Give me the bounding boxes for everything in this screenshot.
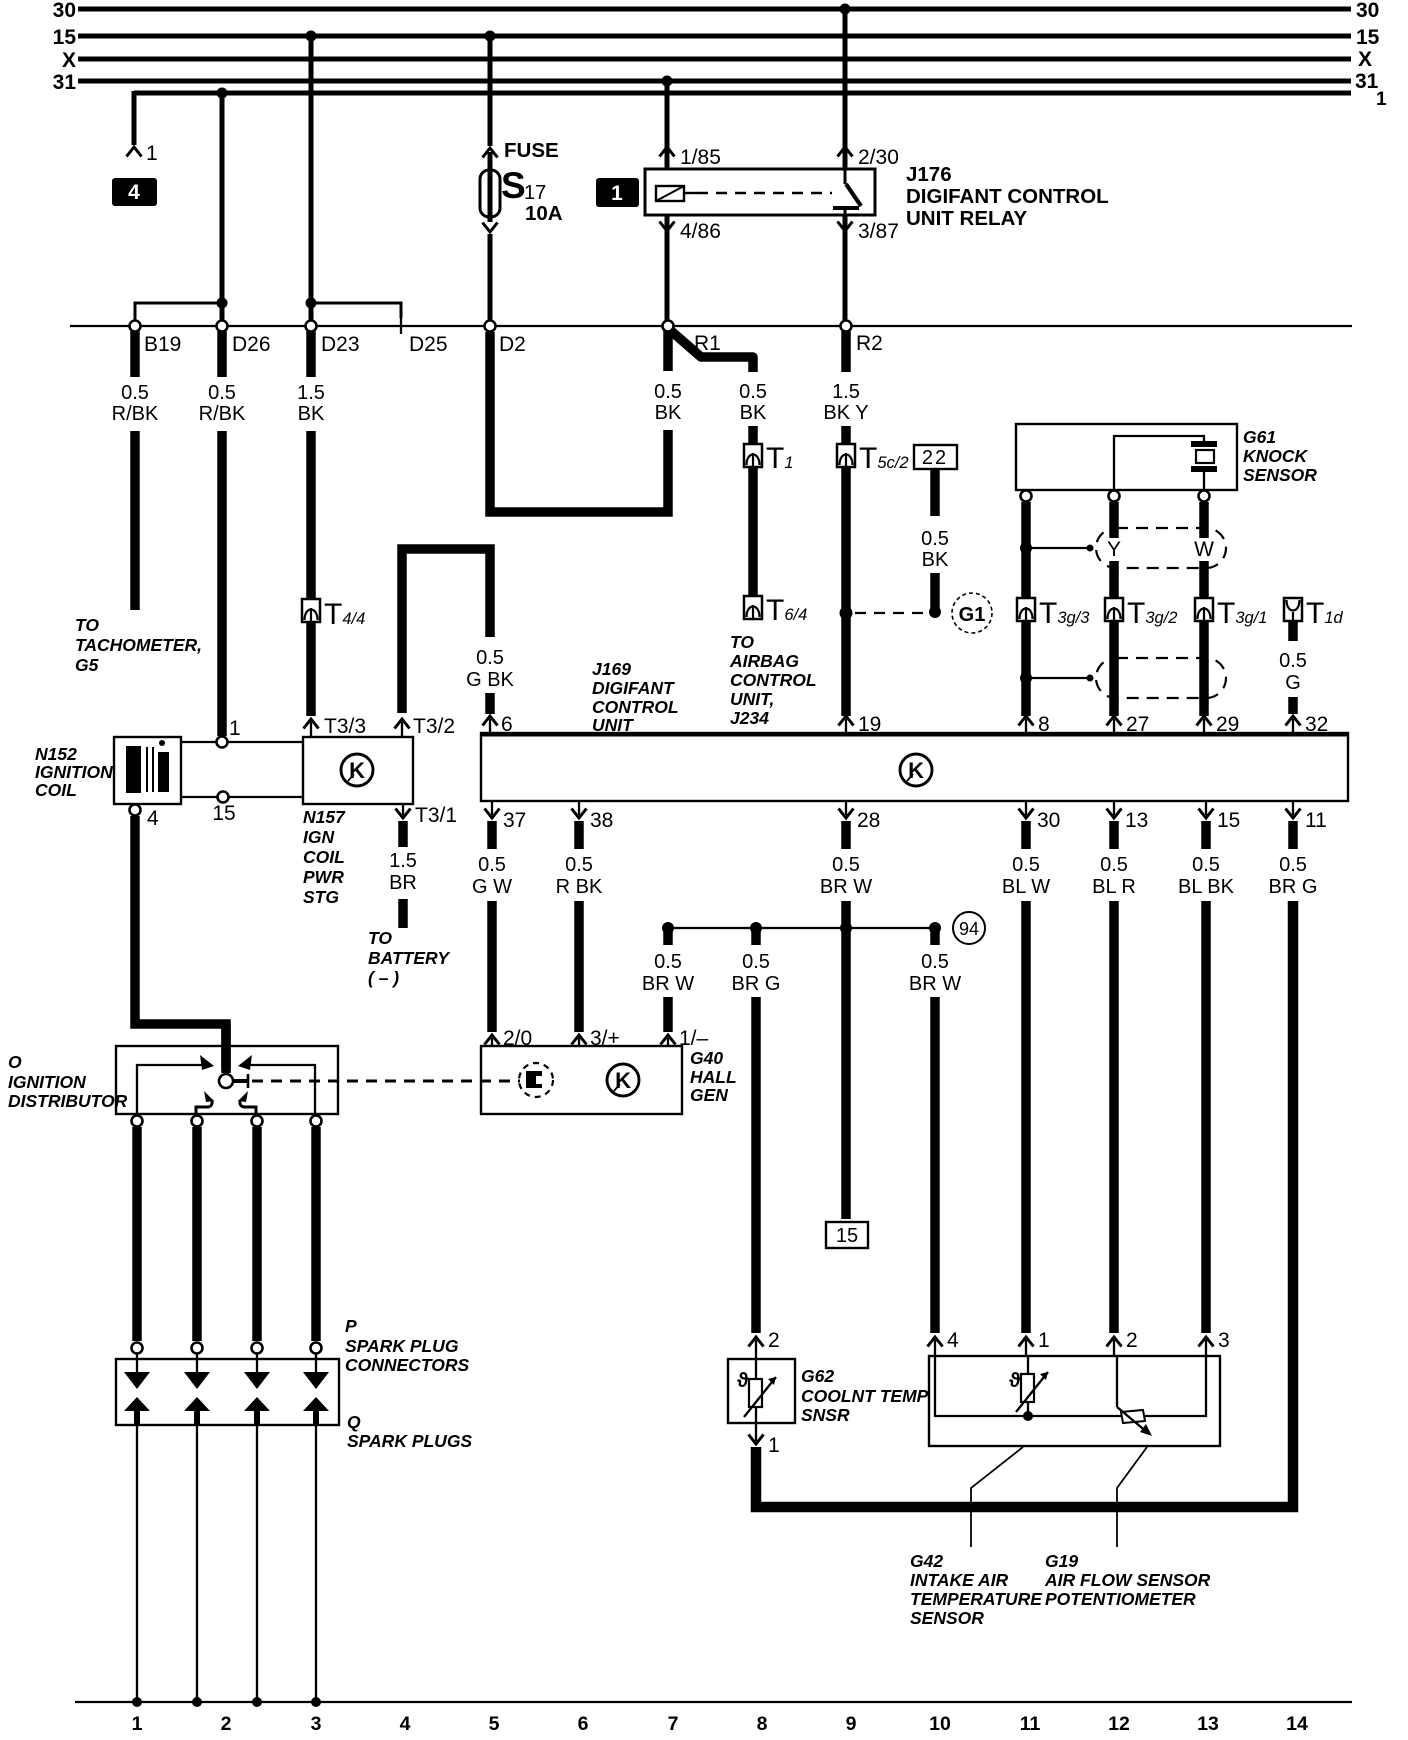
svg-text:BL W: BL W bbox=[1002, 876, 1050, 898]
svg-text:G61: G61 bbox=[1243, 427, 1276, 447]
svg-text:TO: TO bbox=[368, 928, 392, 948]
wire junction to hall 1/- bbox=[661, 931, 709, 1050]
wire R2 stub bbox=[841, 331, 851, 372]
svg-text:SPARK PLUG: SPARK PLUG bbox=[345, 1336, 459, 1356]
value 1.5 BK/Y (R2) bbox=[823, 381, 868, 424]
value 1.5 BK (D23) bbox=[297, 382, 325, 425]
ignition coil N152 box bbox=[114, 737, 181, 804]
svg-text:BR W: BR W bbox=[909, 973, 961, 995]
G62 pin 1 arrow bbox=[749, 1423, 780, 1457]
wire: feeder D26 from bus 1 bbox=[217, 88, 228, 304]
svg-text:BK: BK bbox=[655, 402, 682, 424]
svg-text:30: 30 bbox=[1356, 0, 1379, 22]
J169 pin 37 wire to hall 2/0 bbox=[485, 801, 533, 1050]
wire coil pin4 to distributor bbox=[135, 816, 226, 1070]
svg-text:D25: D25 bbox=[409, 333, 448, 356]
svg-text:15: 15 bbox=[212, 802, 235, 825]
svg-text:29: 29 bbox=[1216, 713, 1239, 736]
value 0.5 R/BK (B19) bbox=[112, 382, 159, 425]
svg-text:31: 31 bbox=[53, 71, 77, 94]
svg-text:1: 1 bbox=[611, 182, 623, 205]
svg-text:4/86: 4/86 bbox=[680, 220, 721, 243]
svg-text:TACHOMETER,: TACHOMETER, bbox=[75, 635, 202, 655]
svg-text:BL BK: BL BK bbox=[1178, 876, 1235, 898]
svg-text:BK: BK bbox=[922, 549, 949, 571]
value 0.5 BR/G (G62) bbox=[732, 951, 781, 995]
svg-text:30: 30 bbox=[53, 0, 76, 22]
svg-text:3/87: 3/87 bbox=[858, 220, 899, 243]
label G61 KNOCK SENSOR bbox=[1243, 427, 1317, 485]
label box 4 (black) bbox=[112, 178, 157, 206]
shielded pair oval Y/W bbox=[1096, 528, 1226, 568]
svg-text:R/BK: R/BK bbox=[112, 403, 159, 425]
svg-text:12: 12 bbox=[1108, 1713, 1130, 1735]
label box 1 (black) bbox=[596, 178, 639, 207]
svg-text:1: 1 bbox=[229, 717, 241, 740]
svg-text:0.5: 0.5 bbox=[121, 382, 149, 404]
wire T3/1 to battery bbox=[396, 804, 458, 928]
bus 30 bbox=[53, 0, 1380, 22]
pin label T3/3 bbox=[324, 715, 366, 738]
svg-text:0.5: 0.5 bbox=[476, 647, 504, 669]
bus X bbox=[62, 48, 1372, 72]
svg-text:38: 38 bbox=[590, 809, 613, 832]
wire: terminal 1 stub top-left bbox=[127, 91, 158, 165]
svg-text:BK: BK bbox=[298, 403, 325, 425]
svg-text:0.5: 0.5 bbox=[921, 951, 949, 973]
svg-text:J176: J176 bbox=[906, 163, 952, 186]
svg-text:SENSOR: SENSOR bbox=[910, 1608, 984, 1628]
intake air temp sensor G42 element bbox=[1009, 1356, 1048, 1421]
svg-text:4: 4 bbox=[147, 807, 159, 830]
wire B19 to tachometer bbox=[130, 331, 140, 610]
connector T4/4 bbox=[302, 598, 365, 631]
value 0.5 BK (22 wire) bbox=[921, 528, 949, 571]
coil pin 4 bbox=[130, 805, 160, 831]
svg-text:SENSOR: SENSOR bbox=[1243, 465, 1317, 485]
svg-text:0.5: 0.5 bbox=[1279, 854, 1307, 876]
svg-text:BR G: BR G bbox=[1269, 876, 1318, 898]
svg-text:0.5: 0.5 bbox=[1279, 650, 1307, 672]
value 0.5 BL/BK bbox=[1178, 854, 1235, 898]
connector T5c/2 bbox=[837, 426, 909, 475]
svg-text:( – ): ( – ) bbox=[368, 968, 399, 988]
value 0.5 BK (R1 left) bbox=[654, 381, 682, 424]
svg-text:SPARK PLUGS: SPARK PLUGS bbox=[347, 1431, 472, 1451]
spark plug wire 4 bbox=[311, 1127, 321, 1341]
svg-text:G62: G62 bbox=[801, 1366, 834, 1386]
leader to G19 label bbox=[1117, 1447, 1147, 1547]
svg-text:14: 14 bbox=[1286, 1713, 1308, 1735]
svg-text:STG: STG bbox=[303, 887, 339, 907]
relay switch contact bbox=[833, 169, 861, 215]
svg-text:0.5: 0.5 bbox=[739, 381, 767, 403]
svg-text:TEMPERATURE: TEMPERATURE bbox=[910, 1589, 1043, 1609]
svg-text:1.5: 1.5 bbox=[832, 381, 860, 403]
coil pin 1 line bbox=[181, 717, 303, 748]
svg-text:BR G: BR G bbox=[732, 973, 781, 995]
value 0.5 R/BK (D26) bbox=[199, 382, 246, 425]
relay pin 3/87 wire bbox=[838, 215, 899, 321]
svg-text:G W: G W bbox=[472, 876, 512, 898]
svg-text:ϑ: ϑ bbox=[1009, 1370, 1021, 1392]
label J176 DIGIFANT CONTROL UNIT RELAY bbox=[906, 163, 1109, 230]
connector T3g/1 bbox=[1195, 597, 1267, 630]
svg-text:INTAKE AIR: INTAKE AIR bbox=[910, 1570, 1009, 1590]
wire T3g/3 to J169 pin 8 bbox=[1019, 621, 1094, 736]
terminal R2 bbox=[841, 321, 883, 356]
label TO TACHOMETER G5 bbox=[75, 615, 202, 675]
value 0.5 R/BK (38) bbox=[556, 854, 603, 898]
terminal R1 bbox=[663, 321, 721, 356]
svg-text:4: 4 bbox=[128, 181, 140, 204]
svg-text:ϑ: ϑ bbox=[737, 1370, 749, 1392]
leader to G42 label bbox=[971, 1447, 1023, 1547]
wire junction to airflow pin 4 bbox=[928, 931, 960, 1356]
label box 22 bbox=[914, 445, 957, 469]
value 1.5 BR bbox=[389, 850, 417, 894]
terminal B19 bbox=[130, 321, 182, 357]
control unit J169 box bbox=[481, 733, 1348, 801]
value 0.5 G/W bbox=[472, 854, 512, 898]
coolant temp sensor G62 box bbox=[728, 1359, 795, 1423]
svg-text:HALL: HALL bbox=[690, 1067, 737, 1087]
svg-text:CONTROL: CONTROL bbox=[730, 670, 817, 690]
value 0.5 BR/W (hall) bbox=[642, 951, 694, 995]
J169 pin 13 wire to airflow 2 bbox=[1107, 801, 1149, 1356]
value 0.5 BR/W (28) bbox=[820, 854, 872, 898]
svg-text:27: 27 bbox=[1126, 713, 1149, 736]
svg-text:W: W bbox=[1194, 538, 1214, 561]
svg-text:1/–: 1/– bbox=[679, 1027, 709, 1050]
bottom grid rail bbox=[75, 1701, 1352, 1703]
svg-text:0.5: 0.5 bbox=[1100, 854, 1128, 876]
wire T1d to J169 pin 32 bbox=[1286, 621, 1329, 736]
svg-text:CONTROL: CONTROL bbox=[592, 697, 679, 717]
power stage N157 box bbox=[303, 737, 413, 804]
svg-text:1: 1 bbox=[768, 1434, 780, 1457]
svg-text:28: 28 bbox=[857, 809, 880, 832]
node G1 bbox=[952, 593, 992, 633]
svg-text:4: 4 bbox=[400, 1713, 411, 1735]
J169 pin 28 wire to box 15 bbox=[839, 801, 881, 1219]
J169 pin 11 wire to G62 pin 1 bbox=[756, 801, 1327, 1507]
svg-text:G1: G1 bbox=[959, 604, 986, 626]
junction G1 dashed link bbox=[840, 607, 929, 620]
svg-text:0.5: 0.5 bbox=[921, 528, 949, 550]
wire T3/2 U-loop to J169 pin 6 bbox=[395, 549, 491, 738]
svg-text:J169: J169 bbox=[592, 659, 631, 679]
svg-text:3: 3 bbox=[311, 1713, 322, 1735]
spark plug lead 3 bbox=[252, 1425, 262, 1707]
relay pin 4/86 wire bbox=[660, 215, 721, 321]
wire knock 2 to T3g/2 bbox=[1109, 502, 1119, 600]
svg-text:1.5: 1.5 bbox=[389, 850, 417, 872]
svg-text:10: 10 bbox=[929, 1713, 951, 1735]
svg-text:AIRBAG: AIRBAG bbox=[729, 651, 799, 671]
hall generator G40 box bbox=[481, 1046, 682, 1114]
svg-text:COOLNT TEMP: COOLNT TEMP bbox=[801, 1386, 929, 1406]
bus 15 bbox=[53, 26, 1380, 49]
svg-text:N152: N152 bbox=[35, 744, 77, 764]
wire junction to G62 pin 2 bbox=[749, 931, 780, 1359]
label G62 COOLNT TEMP SNSR bbox=[801, 1366, 929, 1425]
svg-text:SNSR: SNSR bbox=[801, 1405, 850, 1425]
label Q SPARK PLUGS bbox=[347, 1412, 472, 1451]
grid numbers 1-14 bbox=[132, 1713, 1308, 1735]
node 94 bbox=[953, 912, 985, 944]
svg-text:BK: BK bbox=[740, 402, 767, 424]
wire: feeder relay 30 from bus 30 bbox=[838, 4, 899, 170]
svg-text:T3/1: T3/1 bbox=[415, 804, 457, 827]
svg-text:IGN: IGN bbox=[303, 827, 334, 847]
svg-text:15: 15 bbox=[1356, 26, 1380, 49]
svg-text:O: O bbox=[8, 1052, 22, 1072]
svg-text:13: 13 bbox=[1125, 809, 1148, 832]
svg-text:5: 5 bbox=[489, 1713, 500, 1735]
terminal D25 bbox=[401, 318, 448, 356]
svg-text:TO: TO bbox=[75, 615, 99, 635]
separator rail bbox=[70, 325, 1352, 327]
svg-text:1: 1 bbox=[146, 142, 158, 165]
svg-text:32: 32 bbox=[1305, 713, 1328, 736]
svg-text:10A: 10A bbox=[525, 202, 563, 225]
svg-text:POTENTIOMETER: POTENTIOMETER bbox=[1045, 1589, 1196, 1609]
wire T3g/1 to J169 pin 29 bbox=[1197, 621, 1240, 736]
svg-text:0.5: 0.5 bbox=[478, 854, 506, 876]
svg-text:7: 7 bbox=[668, 1713, 679, 1735]
svg-text:8: 8 bbox=[757, 1713, 768, 1735]
value 0.5 BK (R1 right) bbox=[739, 381, 767, 424]
svg-text:AIR FLOW SENSOR: AIR FLOW SENSOR bbox=[1044, 1570, 1211, 1590]
svg-text:13: 13 bbox=[1197, 1713, 1219, 1735]
svg-text:DIGIFANT CONTROL: DIGIFANT CONTROL bbox=[906, 185, 1109, 208]
label G40 HALL GEN bbox=[690, 1048, 737, 1105]
svg-text:BK Y: BK Y bbox=[823, 402, 868, 424]
value 0.5 G (T1d) bbox=[1279, 650, 1307, 694]
svg-text:0.5: 0.5 bbox=[654, 951, 682, 973]
svg-text:KNOCK: KNOCK bbox=[1243, 446, 1309, 466]
svg-text:G42: G42 bbox=[910, 1551, 943, 1571]
wire D23 to T3/3 bbox=[304, 331, 319, 737]
label J169 DIGIFANT CONTROL UNIT bbox=[592, 659, 679, 735]
svg-text:G40: G40 bbox=[690, 1048, 723, 1068]
svg-text:1: 1 bbox=[1038, 1329, 1050, 1352]
knock sensor G61 box bbox=[1016, 424, 1237, 502]
svg-text:6: 6 bbox=[578, 1713, 589, 1735]
svg-text:X: X bbox=[1358, 48, 1372, 71]
svg-text:0.5: 0.5 bbox=[742, 951, 770, 973]
svg-text:DIGIFANT: DIGIFANT bbox=[592, 678, 675, 698]
connector T6/4 bbox=[744, 594, 807, 627]
svg-text:BATTERY: BATTERY bbox=[368, 948, 450, 968]
svg-text:15: 15 bbox=[836, 1225, 858, 1247]
svg-text:TO: TO bbox=[730, 632, 754, 652]
wire knock 3 to T3g/1 bbox=[1199, 502, 1209, 600]
svg-text:X: X bbox=[62, 49, 76, 72]
junction D25 jumper bbox=[306, 298, 402, 322]
svg-text:0.5: 0.5 bbox=[208, 382, 236, 404]
connector T1 bbox=[744, 426, 794, 475]
distributor left arm bbox=[137, 1055, 214, 1114]
value 0.5 BR/G (11) bbox=[1269, 854, 1318, 898]
label box 15 bbox=[826, 1222, 868, 1248]
spark plug lead 1 bbox=[132, 1425, 142, 1707]
svg-text:S: S bbox=[501, 165, 526, 206]
distributor rotor center bbox=[219, 1024, 248, 1088]
svg-text:R BK: R BK bbox=[556, 876, 603, 898]
spark plug lead 4 bbox=[311, 1425, 321, 1707]
J169 pin 30 wire to airflow 1 bbox=[1019, 801, 1061, 1356]
spark plug wire 2 bbox=[192, 1127, 202, 1341]
svg-text:D23: D23 bbox=[321, 333, 360, 356]
wire knock 1 to T3g/3 bbox=[1020, 502, 1094, 600]
svg-text:8: 8 bbox=[1038, 713, 1050, 736]
label G42 INTAKE AIR TEMPERATURE SENSOR bbox=[910, 1551, 1043, 1628]
svg-text:37: 37 bbox=[503, 809, 526, 832]
svg-text:COIL: COIL bbox=[303, 847, 345, 867]
relay J176 box bbox=[645, 169, 875, 215]
svg-text:PWR: PWR bbox=[303, 867, 344, 887]
svg-text:G BK: G BK bbox=[466, 669, 514, 691]
svg-text:BR W: BR W bbox=[642, 973, 694, 995]
wire D2 U-loop to R1 bbox=[490, 332, 668, 512]
svg-text:COIL: COIL bbox=[35, 780, 77, 800]
wire stub to J169 pin 6 bbox=[483, 693, 513, 736]
svg-text:0.5: 0.5 bbox=[1012, 854, 1040, 876]
connector T3g/2 bbox=[1105, 597, 1177, 630]
distributor terminals bbox=[132, 1116, 322, 1127]
svg-text:3: 3 bbox=[1218, 1329, 1230, 1352]
wire: feeder D2 from bus 15 bbox=[485, 31, 496, 147]
wire: feeder relay 85 from bus 31 bbox=[660, 76, 721, 170]
svg-text:IGNITION: IGNITION bbox=[35, 762, 113, 782]
wire from 22 box bbox=[929, 469, 941, 618]
svg-text:BR: BR bbox=[389, 872, 417, 894]
svg-text:G19: G19 bbox=[1045, 1551, 1078, 1571]
svg-text:P: P bbox=[345, 1316, 357, 1336]
junction B19 jumper bbox=[135, 298, 228, 322]
label N157 IGN COIL PWR STG bbox=[303, 807, 346, 907]
connector T3g/3 bbox=[1017, 597, 1090, 630]
svg-text:0.5: 0.5 bbox=[654, 381, 682, 403]
wire R1 elbow to T1 bbox=[670, 330, 753, 372]
spark plug lead 2 bbox=[192, 1425, 202, 1707]
svg-text:G: G bbox=[1285, 672, 1301, 694]
terminal D26 bbox=[217, 321, 271, 357]
bus 1 bbox=[134, 89, 1387, 110]
svg-text:UNIT,: UNIT, bbox=[730, 689, 774, 709]
connector T1d bbox=[1284, 597, 1344, 630]
svg-text:2/30: 2/30 bbox=[858, 146, 899, 169]
svg-text:BL R: BL R bbox=[1092, 876, 1136, 898]
svg-text:2: 2 bbox=[221, 1713, 232, 1735]
distributor rotor contact left bbox=[196, 1091, 214, 1114]
terminal D23 bbox=[306, 321, 360, 357]
svg-text:T3/3: T3/3 bbox=[324, 715, 366, 738]
svg-text:2: 2 bbox=[768, 1329, 780, 1352]
distributor rotor contact right bbox=[238, 1091, 256, 1114]
air flow sensor box bbox=[929, 1356, 1220, 1446]
svg-text:1: 1 bbox=[1376, 89, 1387, 110]
label P SPARK PLUG CONNECTORS bbox=[345, 1316, 469, 1375]
label G19 AIR FLOW SENSOR POTENTIOMETER bbox=[1044, 1551, 1211, 1609]
distributor right arm bbox=[238, 1055, 315, 1114]
value 0.5 BL/W bbox=[1002, 854, 1050, 898]
spark plug wire 3 bbox=[252, 1127, 262, 1341]
svg-text:B19: B19 bbox=[144, 333, 181, 356]
svg-text:IGNITION: IGNITION bbox=[8, 1072, 86, 1092]
spark plug connector terminals bbox=[132, 1343, 322, 1354]
shielded pair oval lower bbox=[1096, 658, 1226, 698]
svg-text:0.5: 0.5 bbox=[565, 854, 593, 876]
svg-text:R/BK: R/BK bbox=[199, 403, 246, 425]
svg-text:CONNECTORS: CONNECTORS bbox=[345, 1355, 469, 1375]
spark plug wire 1 bbox=[132, 1127, 142, 1341]
svg-text:BR W: BR W bbox=[820, 876, 872, 898]
label O IGNITION DISTRIBUTOR bbox=[8, 1052, 128, 1111]
terminal D2 bbox=[485, 321, 526, 357]
svg-text:1.5: 1.5 bbox=[297, 382, 325, 404]
svg-text:17: 17 bbox=[524, 182, 546, 204]
svg-text:15: 15 bbox=[53, 26, 77, 49]
spark plug connectors P box bbox=[116, 1359, 339, 1425]
wire T3g/2 to J169 pin 27 bbox=[1107, 621, 1150, 736]
svg-text:UNIT RELAY: UNIT RELAY bbox=[906, 207, 1027, 230]
dashed link distributor to hall bbox=[252, 1080, 520, 1083]
svg-text:T3/2: T3/2 bbox=[413, 715, 455, 738]
wire R1 stub bbox=[663, 331, 673, 371]
svg-text:1: 1 bbox=[132, 1713, 143, 1735]
J169 pin 38 wire to hall 3/+ bbox=[572, 801, 620, 1050]
value 0.5 BL/R bbox=[1092, 854, 1136, 898]
svg-text:2: 2 bbox=[1126, 1329, 1138, 1352]
svg-text:Q: Q bbox=[347, 1412, 361, 1432]
relay coil bbox=[656, 186, 832, 201]
J169 pin 15 wire to airflow 3 bbox=[1199, 801, 1241, 1356]
svg-text:0.5: 0.5 bbox=[832, 854, 860, 876]
label TO BATTERY (-) bbox=[368, 928, 450, 988]
svg-text:DISTRIBUTOR: DISTRIBUTOR bbox=[8, 1091, 128, 1111]
junction rail 94 bbox=[662, 922, 941, 934]
svg-text:FUSE: FUSE bbox=[504, 139, 559, 162]
svg-text:Y: Y bbox=[1107, 538, 1121, 561]
svg-text:11: 11 bbox=[1020, 1713, 1041, 1735]
ignition distributor O box bbox=[116, 1046, 338, 1114]
svg-text:J234: J234 bbox=[730, 708, 769, 728]
value 0.5 BR/W (airflow) bbox=[909, 951, 961, 995]
svg-text:4: 4 bbox=[947, 1329, 959, 1352]
svg-text:D26: D26 bbox=[232, 333, 271, 356]
label N152 IGNITION COIL bbox=[35, 744, 113, 800]
svg-text:N157: N157 bbox=[303, 807, 346, 827]
value 0.5 G/BK bbox=[466, 647, 514, 691]
wire T1 to T6/4 bbox=[748, 467, 758, 597]
bus 31 bbox=[53, 70, 1379, 94]
fuse S17 10A bbox=[480, 139, 563, 321]
svg-text:9: 9 bbox=[846, 1713, 857, 1735]
connector contacts P/Q bbox=[124, 1354, 329, 1425]
label TO AIRBAG CONTROL UNIT J234 bbox=[729, 632, 817, 728]
svg-text:94: 94 bbox=[959, 919, 979, 939]
svg-text:0.5: 0.5 bbox=[1192, 854, 1220, 876]
svg-text:1/85: 1/85 bbox=[680, 146, 721, 169]
svg-text:30: 30 bbox=[1037, 809, 1060, 832]
svg-text:15: 15 bbox=[1217, 809, 1240, 832]
air flow potentiometer G19 wiper bbox=[1117, 1356, 1152, 1436]
wire: feeder D23 from bus 15 bbox=[306, 31, 317, 304]
wire R2 to J169 pin 19 bbox=[839, 467, 882, 736]
